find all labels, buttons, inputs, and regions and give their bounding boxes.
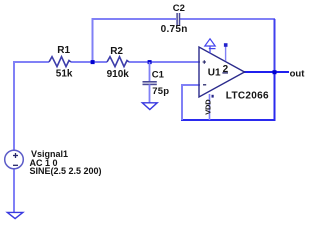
wire feedback left vertical [181, 84, 183, 120]
svg-text:U1: U1 [208, 68, 221, 79]
node out junction [273, 70, 277, 74]
wire R2 to node N2 [129, 61, 150, 63]
wire right vertical C2 rail to out node [274, 19, 276, 72]
node N1 junction [91, 60, 95, 64]
resistor R2 [107, 57, 129, 67]
op-amp -input marker [203, 84, 206, 86]
wire input net left horizontal [13, 61, 49, 63]
op-amp V+ pin arrow [205, 39, 216, 54]
wire R1 to node N1 [71, 61, 93, 63]
wire source to ground [13, 169, 15, 213]
op-amp pin 2 (floating) [225, 45, 227, 61]
ground at C1 [142, 103, 157, 110]
wire left vertical to source [13, 61, 15, 151]
op-amp U1 [199, 47, 245, 97]
voltage source Vsignal1 [5, 150, 24, 169]
wire out node down to bottom rail [274, 72, 276, 121]
wire node N1 to R2 [93, 61, 107, 63]
svg-text:VDD: VDD [203, 99, 212, 115]
wire top rail left of C2 [92, 18, 177, 20]
ground at source [7, 212, 23, 218]
op-amp +input marker [203, 60, 206, 64]
resistor R1 [49, 57, 71, 67]
svg-text:0.75n: 0.75n [161, 24, 188, 35]
wire riser node N1 to top rail [92, 18, 94, 62]
wire feedback to op-amp -input [182, 84, 200, 86]
svg-text:R2: R2 [110, 46, 123, 57]
wire top rail right of C2 [180, 18, 275, 20]
svg-text:51k: 51k [56, 69, 73, 80]
svg-text:75p: 75p [152, 86, 169, 97]
svg-text:out: out [290, 69, 306, 80]
node N2 junction [148, 60, 152, 64]
wire node N2 to op-amp +input [150, 61, 200, 63]
svg-text:C1: C1 [152, 70, 165, 81]
wire op-amp V- pin down [209, 94, 211, 120]
svg-text:LTC2066: LTC2066 [226, 90, 269, 101]
capacitor C2 [177, 13, 179, 25]
op-amp V- pin marker [212, 95, 214, 98]
svg-text:R1: R1 [57, 45, 70, 56]
svg-text:C2: C2 [173, 3, 185, 14]
capacitor C1 [143, 62, 157, 103]
wire op-amp output to out label [244, 71, 289, 73]
svg-text:910k: 910k [107, 69, 130, 80]
wire bottom feedback rail [181, 119, 276, 121]
svg-text:SINE(2.5 2.5 200): SINE(2.5 2.5 200) [30, 166, 102, 176]
